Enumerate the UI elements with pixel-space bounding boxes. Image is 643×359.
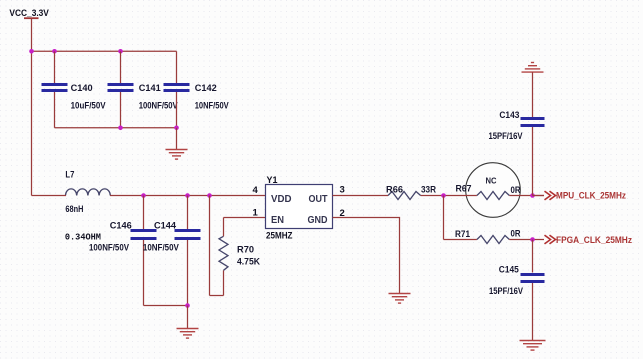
capacitor C146 bbox=[89, 196, 157, 306]
node junction C141 top bbox=[118, 49, 123, 54]
node junction MPU bbox=[530, 193, 535, 198]
capacitor C144 bbox=[143, 196, 201, 306]
svg-text:R67: R67 bbox=[456, 184, 472, 195]
power symbol VCC_3.3V bbox=[9, 8, 49, 51]
svg-text:C142: C142 bbox=[195, 83, 217, 94]
NC circle marker bbox=[466, 163, 521, 218]
svg-text:FPGA_CLK_25MHz: FPGA_CLK_25MHz bbox=[556, 235, 632, 245]
svg-text:L7: L7 bbox=[65, 170, 74, 181]
resistor R66 bbox=[386, 185, 436, 200]
ground (mid) bbox=[177, 329, 199, 339]
ground (Y1 pin2) bbox=[389, 294, 411, 304]
node junction top-left bbox=[29, 49, 34, 54]
wire main horizontal left bbox=[32, 195, 67, 197]
wire left drop bbox=[31, 51, 33, 195]
svg-text:100NF/50V: 100NF/50V bbox=[139, 100, 179, 111]
wire R67 to port bbox=[509, 195, 544, 197]
svg-text:10uF/50V: 10uF/50V bbox=[71, 100, 107, 111]
node junction R70 bbox=[207, 193, 212, 198]
wire R71 branch down bbox=[443, 196, 445, 240]
capacitor C140 bbox=[42, 51, 107, 128]
resistor R70 bbox=[210, 196, 266, 296]
svg-text:4.75K: 4.75K bbox=[237, 257, 260, 268]
svg-text:R71: R71 bbox=[455, 229, 471, 240]
node junction FPGA bbox=[530, 237, 535, 242]
svg-text:33R: 33R bbox=[421, 185, 436, 196]
svg-text:10NF/50V: 10NF/50V bbox=[143, 242, 180, 253]
wire to R71 bbox=[444, 239, 477, 241]
svg-text:MPU_CLK_25MHz: MPU_CLK_25MHz bbox=[556, 191, 626, 201]
svg-text:C145: C145 bbox=[499, 264, 520, 275]
port MPU_CLK_25MHz bbox=[533, 191, 627, 201]
capacitor C141 bbox=[108, 51, 179, 128]
resistor R67 bbox=[456, 184, 521, 200]
wire bottom rail of cap bank bbox=[55, 127, 177, 129]
svg-text:68nH: 68nH bbox=[65, 204, 83, 215]
wire stem to ground bbox=[176, 128, 178, 149]
svg-text:Y1: Y1 bbox=[267, 175, 279, 186]
capacitor C142 bbox=[164, 51, 230, 128]
svg-text:OUT: OUT bbox=[309, 194, 328, 205]
node junction C142 bottom bbox=[174, 126, 179, 131]
svg-text:100NF/50V: 100NF/50V bbox=[89, 242, 130, 253]
wire top rail bbox=[32, 50, 177, 52]
svg-text:R66: R66 bbox=[386, 185, 403, 196]
node junction C146 bbox=[141, 193, 146, 198]
svg-text:4: 4 bbox=[253, 185, 259, 196]
svg-text:GND: GND bbox=[308, 215, 328, 226]
inductor L7 bbox=[65, 170, 110, 216]
svg-text:15PF/16V: 15PF/16V bbox=[489, 131, 524, 142]
svg-text:C140: C140 bbox=[71, 83, 93, 94]
node junction ground mid bbox=[185, 303, 190, 308]
svg-text:R70: R70 bbox=[237, 244, 254, 255]
wire OUT pin to R66 bbox=[333, 195, 389, 197]
svg-text:VDD: VDD bbox=[271, 194, 292, 205]
node junction R71 branch bbox=[441, 193, 446, 198]
wire main horizontal to VDD bbox=[110, 195, 266, 197]
capacitor C145 bbox=[489, 240, 545, 341]
svg-text:10NF/50V: 10NF/50V bbox=[195, 100, 230, 111]
svg-text:0.34OHM: 0.34OHM bbox=[65, 233, 101, 243]
svg-text:25MHZ: 25MHZ bbox=[266, 230, 293, 241]
wire bottom rail C146/C144 bbox=[144, 305, 188, 307]
svg-text:NC: NC bbox=[486, 177, 497, 186]
svg-text:3: 3 bbox=[340, 185, 345, 196]
ground (cap bank) bbox=[166, 150, 188, 160]
svg-text:15PF/16V: 15PF/16V bbox=[489, 286, 524, 297]
wire R66 to R67 bbox=[421, 195, 477, 197]
wire GND pin to ground bbox=[333, 218, 400, 294]
op-amp U1 (oscillator Y1 body) bbox=[253, 175, 345, 241]
resistor R71 bbox=[455, 229, 521, 244]
svg-text:C146: C146 bbox=[110, 221, 132, 232]
svg-text:0R: 0R bbox=[511, 185, 521, 196]
svg-text:EN: EN bbox=[271, 215, 284, 226]
ground (bottom right) bbox=[520, 341, 546, 351]
ground (top right, inverted) bbox=[522, 63, 544, 73]
svg-text:1: 1 bbox=[253, 208, 259, 219]
node junction C141 bottom bbox=[118, 126, 123, 131]
node junction C140 top bbox=[52, 49, 57, 54]
node junction C144 bbox=[185, 193, 190, 198]
port FPGA_CLK_25MHz bbox=[545, 235, 633, 245]
capacitor C143 bbox=[489, 72, 545, 195]
svg-text:C141: C141 bbox=[139, 83, 162, 94]
wire stem to mid ground bbox=[187, 306, 189, 329]
wire R71 to port bbox=[509, 239, 544, 241]
svg-text:C143: C143 bbox=[499, 110, 519, 121]
svg-text:0R: 0R bbox=[511, 229, 521, 240]
svg-text:C144: C144 bbox=[154, 221, 177, 232]
